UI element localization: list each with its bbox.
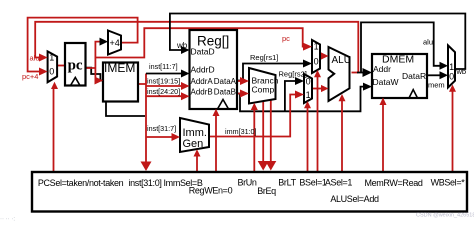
svg-text:Reg[rs1]: Reg[rs1] bbox=[250, 53, 278, 62]
arrow A-mux out into ALU A bbox=[321, 52, 329, 59]
wire pc to ALU A-mux input 1 bbox=[95, 28, 306, 57]
wire imm[31:0] ImmGen to B-mux input 1 bbox=[209, 95, 299, 137]
wire inst bus from IMEM to control bbox=[138, 74, 146, 169]
arrow RegWEn into Reg bottom bbox=[213, 109, 220, 116]
arrow alu into PC mux input 1 bbox=[39, 54, 48, 62]
wire pc out red overlay to IMEM bbox=[86, 68, 99, 81]
+4 adder bbox=[108, 31, 121, 55]
wire Reg DataB red stub into comp B bbox=[238, 93, 244, 95]
Imm. Gen bbox=[180, 118, 209, 152]
arrow PCSel into mux bottom bbox=[51, 82, 58, 89]
svg-text:ASel=1: ASel=1 bbox=[325, 178, 353, 188]
svg-text:0: 0 bbox=[314, 57, 319, 67]
arrow inst[24:20] into AddrB bbox=[181, 92, 190, 100]
svg-text:ALU: ALU bbox=[332, 55, 351, 66]
arrow WBSel into WB mux bottom bbox=[449, 85, 456, 92]
svg-text:0: 0 bbox=[449, 71, 454, 81]
WB mux (WBSel) bbox=[448, 45, 455, 87]
svg-text:Gen: Gen bbox=[183, 138, 204, 150]
svg-text:pc: pc bbox=[68, 58, 83, 74]
svg-text:mem: mem bbox=[428, 81, 445, 90]
control BrLT line bbox=[270, 100, 272, 166]
arrow inst[31:7] into ImmGen bbox=[172, 133, 181, 141]
control ALUSel line bbox=[341, 98, 343, 172]
arrow B-mux out into ALU B bbox=[321, 85, 329, 92]
wire pc out to IMEM Addr (black jog) bbox=[86, 68, 103, 81]
wire inst bus black L below IMEM bbox=[106, 102, 145, 117]
svg-text:CSDN @weixin_42651887: CSDN @weixin_42651887 bbox=[416, 213, 474, 219]
wire ALU out to DMEM Addr bbox=[357, 72, 365, 74]
svg-text:inst[31:0]: inst[31:0] bbox=[128, 178, 161, 188]
A-mux (ASel) bbox=[312, 40, 320, 73]
svg-text:1: 1 bbox=[49, 52, 54, 62]
Reg[] register file bbox=[190, 30, 238, 109]
wire A-mux output into ALU input A bbox=[320, 55, 323, 57]
svg-text:Addr: Addr bbox=[373, 64, 391, 74]
arrow DataA into BranchComp A bbox=[240, 77, 249, 85]
svg-text:inst[24:20]: inst[24:20] bbox=[147, 87, 180, 96]
wire Reg DataA to BranchComp A bbox=[238, 80, 244, 82]
PC mux (PCSel) bbox=[48, 51, 58, 82]
ALU bbox=[329, 47, 350, 101]
svg-text:IMEM: IMEM bbox=[104, 61, 135, 75]
svg-text:AddrD: AddrD bbox=[191, 65, 215, 75]
svg-text:pc+4: pc+4 bbox=[22, 72, 38, 81]
control ASel line bbox=[317, 74, 319, 172]
svg-text:1: 1 bbox=[306, 90, 311, 100]
wire alu to WB mux input 1 bbox=[361, 22, 442, 72]
arrow MemRW into DMEM bottom bbox=[380, 98, 387, 106]
svg-text:PCSel=taken/not-taken: PCSel=taken/not-taken bbox=[38, 178, 124, 188]
svg-text:alu: alu bbox=[30, 54, 40, 63]
DMEM bbox=[372, 54, 427, 98]
control PCSel line bbox=[53, 86, 55, 172]
wire Reg DataB down and along to DMEM DataW bbox=[237, 87, 366, 112]
svg-text:alu: alu bbox=[423, 38, 433, 47]
svg-text:BrLT: BrLT bbox=[278, 178, 296, 188]
arrow inst[31:0] into control box (thick down) bbox=[141, 162, 152, 172]
svg-text:BrUn: BrUn bbox=[237, 178, 256, 188]
control WBSel line bbox=[452, 88, 454, 172]
svg-text:WBSel=*: WBSel=* bbox=[431, 178, 466, 188]
arrow pc into +4 bbox=[100, 38, 109, 46]
svg-text:0: 0 bbox=[49, 67, 54, 77]
svg-text:+4: +4 bbox=[110, 38, 120, 48]
arrow wb into Reg DataD bbox=[181, 46, 190, 54]
svg-text:1: 1 bbox=[314, 42, 319, 52]
arrow BrLT into control box (thick down) bbox=[265, 161, 276, 171]
wire inst[31:7] to ImmGen bbox=[146, 136, 175, 138]
svg-text:inst[19:15]: inst[19:15] bbox=[147, 77, 180, 86]
wire Reg[rs2] riser to B-mux input 0 bbox=[285, 81, 299, 111]
svg-text:1: 1 bbox=[449, 62, 454, 72]
wire DMEM DataR to WB mux input 0 bbox=[427, 74, 442, 76]
control MemRW line bbox=[382, 101, 384, 172]
wire pc+4 loop from +4 adder to PC mux input 0 bbox=[28, 18, 138, 72]
IMEM bbox=[103, 63, 138, 102]
arrow pc into IMEM Addr bbox=[95, 77, 104, 85]
svg-text:DataW: DataW bbox=[373, 77, 399, 87]
wire mux output to pc register bbox=[57, 65, 65, 67]
wire ALU out red segment bbox=[352, 72, 359, 74]
arrow BSel into B-mux bottom bbox=[304, 101, 311, 108]
svg-text:BrEq: BrEq bbox=[257, 186, 276, 196]
wire pc riser to +4 adder bbox=[95, 42, 103, 81]
svg-text:·· ·· ·:: ·· ·· ·: bbox=[0, 217, 15, 222]
arrow rs2 into DMEM DataW bbox=[363, 83, 372, 91]
Branch Comp bbox=[249, 68, 276, 104]
wire inst[24:20] to Reg AddrB bbox=[146, 95, 184, 97]
svg-text:Reg[rs2]: Reg[rs2] bbox=[279, 70, 307, 79]
svg-text:wb: wb bbox=[176, 41, 188, 50]
svg-text:DataA: DataA bbox=[214, 77, 237, 86]
wire Reg DataA to A-mux input 0 (Reg[rs1]) bbox=[237, 64, 307, 81]
svg-text:DataB: DataB bbox=[214, 88, 236, 97]
control ImmSel line bbox=[196, 154, 198, 172]
arrow Reg[rs1] into A-mux 0 bbox=[303, 60, 312, 68]
arrow imm into B-mux 1 bbox=[295, 91, 304, 99]
svg-text:AddrB: AddrB bbox=[191, 88, 213, 97]
wire B-mux output into ALU input B bbox=[312, 88, 321, 90]
svg-text:AddrA: AddrA bbox=[191, 77, 214, 86]
control BSel line bbox=[307, 105, 309, 172]
svg-text:pc: pc bbox=[282, 34, 290, 43]
svg-text:Comp: Comp bbox=[252, 85, 275, 95]
control BrEq line bbox=[262, 101, 264, 166]
pc register bbox=[65, 43, 86, 86]
svg-text:wb: wb bbox=[456, 67, 467, 76]
control box bbox=[32, 172, 467, 212]
wire wb writeback from WB mux to Reg DataD bbox=[170, 14, 465, 70]
arrow ASel into A-mux bottom bbox=[314, 70, 321, 77]
arrow alu into WB mux 1 bbox=[440, 62, 449, 70]
svg-text:MemRW=Read: MemRW=Read bbox=[364, 178, 422, 188]
svg-text:inst[31:7]: inst[31:7] bbox=[147, 124, 176, 133]
svg-text:DataD: DataD bbox=[191, 47, 215, 57]
arrow inst[19:15] into AddrA bbox=[181, 82, 190, 90]
arrow Reg[rs2] into B-mux 0 bbox=[295, 77, 304, 85]
wire alu feedback from ALU output to PC mux input 1 bbox=[35, 22, 358, 73]
arrow pc into A-mux 1 bbox=[303, 43, 312, 51]
arrow BrEq into control box (thick down) bbox=[258, 161, 269, 171]
svg-text:ALUSel=Add: ALUSel=Add bbox=[330, 194, 379, 204]
wire inst[11:7] to Reg AddrD (black) bbox=[146, 73, 184, 75]
wire inst[19:15] to Reg AddrA bbox=[146, 85, 184, 87]
control RegWEn line bbox=[215, 113, 217, 172]
arrow DataB into BranchComp B bbox=[240, 90, 249, 98]
arrow pc+4 into PC mux input 0 bbox=[39, 68, 48, 76]
arrow mem into WB mux 0 bbox=[440, 71, 449, 79]
arrow BrUn into comp bottom bbox=[251, 103, 258, 110]
svg-text:imm[31:0]: imm[31:0] bbox=[225, 127, 257, 136]
arrow ImmSel into ImmGen bottom bbox=[194, 149, 201, 156]
svg-text:inst[11:7]: inst[11:7] bbox=[149, 62, 178, 71]
arrow ALU out into DMEM Addr bbox=[363, 68, 373, 77]
svg-text:DataR: DataR bbox=[402, 71, 426, 81]
svg-text:BSel=1: BSel=1 bbox=[299, 178, 327, 188]
svg-text:RegWEn=0: RegWEn=0 bbox=[189, 186, 233, 196]
arrow ALUSel into ALU bottom bbox=[339, 94, 346, 101]
B-mux (BSel) bbox=[304, 74, 312, 103]
control BrUn line bbox=[253, 106, 255, 172]
arrow inst[11:7] into AddrD bbox=[181, 70, 190, 78]
